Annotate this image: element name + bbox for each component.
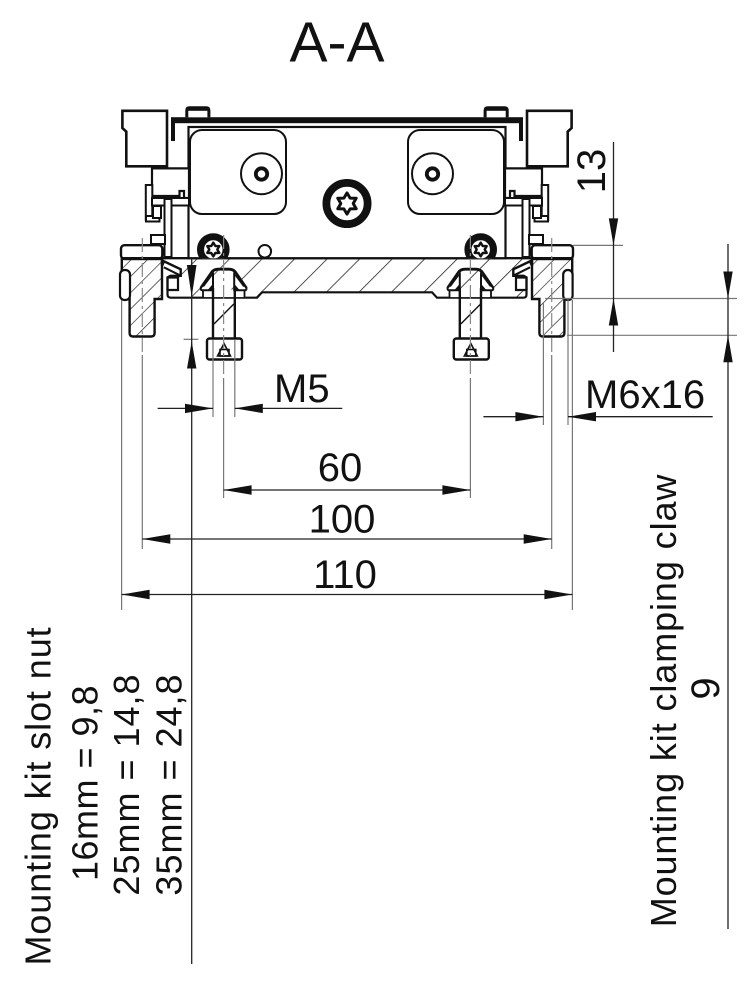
mounting plate hatched section [167,258,528,298]
T-slot cavity right [450,290,492,298]
arrow M5 left [235,404,263,413]
svg-text:Mounting kit clamping claw: Mounting kit clamping claw [643,474,684,928]
tick slot nut top [184,338,199,340]
sub block right [505,168,542,198]
EXTENSION-LINES [122,245,737,610]
svg-text:16mm = 9,8: 16mm = 9,8 [65,685,106,881]
dim line M6x16 [483,416,543,418]
dim line 100 [142,538,551,540]
interlock right [505,185,548,257]
arrow 13 down [609,218,618,245]
wing left [201,272,213,291]
centerline claw left [141,238,143,355]
claw top flange [121,245,162,259]
extension line M6 right [567,298,569,425]
extension line M6 left [542,302,544,425]
svg-text:100: 100 [309,498,376,542]
claw screw slot [120,270,130,300]
svg-text:M6x16: M6x16 [585,373,705,417]
arrow 9 up [723,335,732,362]
thread diagonal [214,304,234,324]
arrow slot-nut up [187,342,196,369]
torx screw right [465,234,496,265]
arrow slot-nut down [187,265,197,297]
dim line 13 [613,142,615,352]
extension line claw bottom right [567,334,737,336]
arrow 60 left [224,485,252,494]
extension line claw centerline left to 100 dim [141,355,143,549]
clamping claw left [120,245,181,336]
shank [212,288,214,339]
extension line bolt center left to 60 dim [223,378,225,498]
extension line claw centerline right to 100 dim [551,355,553,549]
dim line 110 [122,594,573,596]
dim line 9 (right vertical) [727,244,729,929]
arrow M5 right [185,404,213,413]
dome [201,269,247,288]
side block right (jaw) [527,111,572,167]
extension line 13 top tick [573,244,623,246]
extension line 110 left [121,300,123,610]
svg-text:M5: M5 [274,367,330,411]
dim line M5 [158,407,213,409]
arrow 9 down [723,272,732,299]
extension line plate bottom right [545,298,737,300]
dim line 60 [224,489,471,491]
arrow M6 left [568,412,596,421]
svg-text:35mm = 24,8: 35mm = 24,8 [149,673,190,895]
arrow 110 right [544,590,572,599]
arrow 100 left [142,534,170,543]
pad right [408,130,504,214]
svg-text:Mounting kit slot nut: Mounting kit slot nut [18,626,59,965]
centerline bolt right [469,235,471,378]
small hole [259,245,272,258]
arrow 60 right [442,485,470,494]
side block left (jaw) [122,111,167,167]
pad screw right [412,153,453,194]
arrow 100 right [524,534,552,543]
rail end cap right [519,118,523,141]
arrow 110 left [122,590,150,599]
central torx screw [324,180,371,227]
centerline claw right [551,238,553,355]
T-bolt left (slot nut) [201,269,247,359]
centerline bolt left [223,235,225,378]
rail screw bump left [185,106,210,117]
svg-text:25mm = 14,8: 25mm = 14,8 [106,673,147,895]
svg-text:9: 9 [684,677,728,699]
claw hook [162,259,181,290]
svg-text:60: 60 [318,446,363,490]
T-slot cavity left (white under nut wings) [203,290,245,298]
extension line M5 right [234,340,236,417]
sub block left [152,168,189,198]
plate top line [121,257,573,259]
pad left [190,130,286,214]
wing right [234,272,246,291]
arrow M6 right [515,412,543,421]
svg-text:13: 13 [570,149,614,194]
dim line slot nut (left vertical) [191,259,193,965]
T-bolt right (slot nut) [448,269,494,359]
clamping claw right [513,245,573,336]
gripper body [189,127,506,258]
arrow 13 up [609,299,618,326]
torx screw left [198,234,229,265]
svg-text:A-A: A-A [289,11,384,75]
extension line bolt center right to 60 dim [469,378,471,498]
centerlines dashed [142,235,551,378]
rail end cap left [171,118,175,141]
svg-text:110: 110 [313,553,377,597]
torx screws at plate top [198,234,496,265]
rail screw bump right [484,106,509,117]
top rail [171,106,523,141]
interlock left [146,185,189,257]
nut head [207,339,242,360]
extension line 110 right [571,300,573,610]
extension line M5 left [212,340,214,417]
pad screw left [241,153,282,194]
